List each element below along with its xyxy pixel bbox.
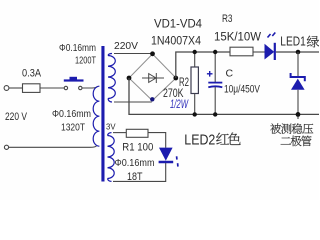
transformer secondary winding 3V 18T [108, 136, 115, 179]
switch S (push-button) [64, 77, 84, 90]
node: bridge DC- (left) [127, 76, 132, 81]
label: zener under test [270, 123, 281, 133]
svg-text:LED2: LED2 [184, 132, 215, 148]
wire: bottom input to primary winding [9, 146, 97, 147]
terminal: AC input top [4, 86, 9, 91]
wire: LED1 to right edge [276, 51, 319, 53]
wire: down to zener [297, 52, 299, 76]
transformer secondary winding 220V [108, 56, 115, 99]
svg-text:C: C [226, 68, 234, 80]
svg-text:1/2W: 1/2W [170, 99, 189, 111]
label: LED1 colour (clipped at edge) [307, 36, 319, 48]
node: R2 bottom junction [193, 112, 197, 116]
svg-text:R1 100: R1 100 [122, 142, 153, 154]
node: C top junction [213, 50, 217, 54]
LED1 light arrows [268, 33, 276, 38]
resistor R1 100 [126, 129, 148, 137]
terminal: AC input bottom (220 V) [4, 145, 8, 149]
capacitor C 10u/450V [214, 52, 216, 82]
bridge rectifier VD1-VD4 diamond [129, 54, 176, 101]
node: bridge DC+ (right) [173, 76, 178, 81]
wire: secondary bottom to bridge AC2 (crosses DC- lead) [114, 101, 152, 103]
LED2 light arrows [177, 156, 178, 166]
svg-text:Φ0.16mm: Φ0.16mm [115, 157, 155, 169]
resistor R2 270K 1/2W [194, 52, 196, 67]
node: R2 top junction [193, 50, 197, 54]
svg-text:1N4007X4: 1N4007X4 [151, 34, 201, 48]
svg-text:15K/10W: 15K/10W [214, 32, 261, 44]
resistor R3 15K/10W [230, 47, 253, 56]
wire: 3V loop top [113, 132, 126, 134]
node: C bottom junction [213, 112, 217, 116]
wire: fuse to switch [40, 87, 64, 89]
wire: R1 to LED2 [148, 133, 166, 148]
svg-text:10μ/450V: 10μ/450V [224, 84, 260, 96]
svg-text:0.3A: 0.3A [22, 68, 42, 80]
svg-text:LED1: LED1 [280, 34, 306, 49]
svg-text:220V: 220V [114, 41, 138, 52]
svg-text:Φ0.16mm: Φ0.16mm [52, 109, 91, 120]
wire: input to fuse [9, 87, 23, 89]
svg-text:220 V: 220 V [5, 111, 28, 123]
LED1 (green) [265, 44, 275, 60]
svg-text:3V: 3V [106, 122, 116, 132]
LED2 (red) [159, 148, 173, 161]
node: zener top junction [296, 50, 301, 55]
svg-text:1200T: 1200T [75, 55, 96, 67]
node: bridge AC1 (top) [150, 51, 155, 56]
wire: zener to bottom rail, stub below [297, 90, 299, 119]
svg-text:VD1-VD4: VD1-VD4 [154, 17, 202, 31]
diode glyph inside bridge [142, 73, 164, 83]
transformer T1 core [101, 46, 104, 182]
wire: LED2 to 3V loop bottom [113, 163, 166, 181]
node: bridge AC2 (bottom) [150, 97, 154, 101]
svg-text:Φ0.16mm: Φ0.16mm [59, 43, 96, 54]
transformer primary winding 1200T/1320T [93, 86, 99, 146]
wire: secondary top to bridge AC1 [114, 53, 153, 55]
node: zener bottom junction [296, 112, 301, 117]
svg-text:R3: R3 [222, 13, 233, 25]
svg-text:1320T: 1320T [61, 122, 85, 134]
wire: switch to primary winding [82, 87, 97, 89]
fuse 0.3A [23, 84, 41, 93]
wire: DC+ lead up to top rail [176, 52, 230, 78]
wire: DC- lead down to bottom rail [129, 78, 319, 114]
wire: R3 to LED1 [253, 51, 265, 53]
zener diode under test [291, 73, 305, 81]
